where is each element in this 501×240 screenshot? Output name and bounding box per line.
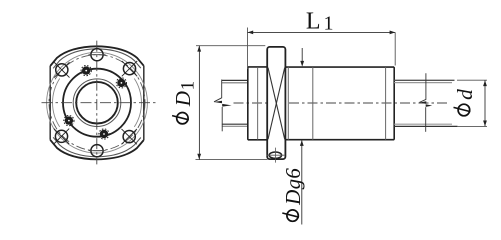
dimension phi Dg6 xyxy=(281,48,305,225)
svg-text:d: d xyxy=(453,89,477,100)
set screw blob bottom xyxy=(99,129,109,139)
bolt hole bottom xyxy=(91,145,103,157)
left shaft outer lines xyxy=(222,79,248,81)
svg-text:Dg6: Dg6 xyxy=(281,168,305,206)
flange inner rim bottom arc xyxy=(53,137,141,157)
flat chamfer arc left xyxy=(53,79,60,127)
bolt hole upper-right xyxy=(122,61,137,76)
svg-text:1: 1 xyxy=(324,13,334,35)
left view vertical centerline xyxy=(96,41,98,165)
left shaft root lines xyxy=(222,82,248,84)
svg-text:L: L xyxy=(306,9,321,35)
grease hole in bottom tab xyxy=(269,152,281,158)
left view horizontal centerline xyxy=(42,102,158,104)
side view centerline xyxy=(234,102,451,104)
bolt hole lower-right xyxy=(122,129,137,144)
body right chamfer line xyxy=(385,67,387,140)
set screw blob upper-right xyxy=(116,78,126,88)
dimension L1 xyxy=(248,9,396,69)
right shaft break line xyxy=(419,73,426,102)
left shaft break line xyxy=(214,80,222,102)
flange plate side view xyxy=(267,47,285,159)
flange outer rim bottom arc xyxy=(50,140,144,160)
set screw blob upper-left xyxy=(81,66,91,76)
dimension phi D1 xyxy=(171,46,267,160)
set screw blob lower-left xyxy=(64,116,74,126)
svg-text:1: 1 xyxy=(178,81,199,91)
svg-text:D: D xyxy=(171,91,195,107)
right shaft root lines xyxy=(394,82,452,84)
bore inner circle xyxy=(76,82,118,124)
right shaft outer lines xyxy=(394,79,454,81)
bolt hole upper-left xyxy=(54,62,69,77)
nut body circle xyxy=(63,69,131,137)
bore outer circle xyxy=(73,79,121,127)
flange left flat edge xyxy=(49,66,51,140)
flat chamfer arc right xyxy=(134,79,141,127)
bolt hole top xyxy=(91,49,103,61)
body ring line xyxy=(312,67,314,140)
flange inner rim top arc xyxy=(53,49,141,69)
collar spigot xyxy=(248,67,267,140)
dimension phi d xyxy=(453,80,487,126)
flange chamfer circle xyxy=(47,52,148,153)
flange X cross xyxy=(268,68,285,140)
bolt circle (dash-dot) xyxy=(49,55,145,151)
flange outer rim top arc xyxy=(50,46,144,66)
nut body side view xyxy=(285,67,394,140)
bolt hole lower-left xyxy=(54,129,69,144)
flange right flat edge xyxy=(143,66,145,140)
body left chamfer line xyxy=(287,67,289,140)
collar chamfer line xyxy=(257,67,259,139)
